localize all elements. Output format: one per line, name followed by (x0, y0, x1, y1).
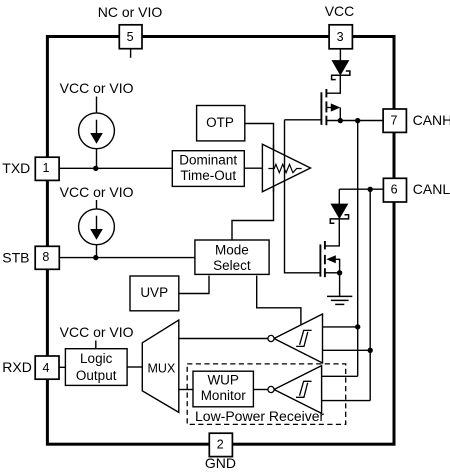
svg-text:RXD: RXD (2, 359, 32, 375)
wire gate bus (285, 120, 321, 273)
svg-text:6: 6 (391, 182, 398, 196)
pin 3 (329, 25, 352, 49)
wire TXD to Dominant Time-Out (59, 167, 172, 169)
wire MUX to upper receiver bubble (179, 338, 268, 340)
svg-text:CANL: CANL (413, 181, 450, 197)
node CANL bus junction (368, 187, 373, 192)
svg-text:MUX: MUX (148, 361, 176, 375)
wire diode D1 to Q1 drain (326, 75, 340, 93)
ground (327, 296, 352, 304)
svg-text:4: 4 (43, 361, 50, 375)
pin 6 (383, 178, 406, 202)
wire Q1 source to CANH pin (326, 120, 383, 122)
wire STB to Mode Select (59, 257, 195, 259)
svg-text:CANH: CANH (413, 112, 450, 128)
svg-text:Mode: Mode (215, 242, 249, 257)
pin 8 (35, 246, 59, 269)
transistor Q1 (high-side PMOS) (321, 89, 340, 125)
wire Mode Select to upper receiver enable (257, 276, 301, 326)
wire Mode Select to UVP (179, 276, 209, 294)
pin 4 (35, 356, 59, 379)
node junction upper receiver input 1 (355, 324, 360, 329)
wire CANL to diode D2 (338, 189, 340, 204)
svg-text:3: 3 (337, 30, 344, 44)
Low-Power Receiver dashed box (187, 364, 346, 425)
svg-text:Monitor: Monitor (201, 388, 247, 403)
svg-text:Dominant: Dominant (179, 152, 237, 167)
wire MUX to WUP Monitor (179, 389, 193, 391)
svg-text:8: 8 (42, 250, 49, 264)
node Q1 body junction (338, 118, 343, 123)
wire upper receiver input 2 (323, 349, 371, 351)
svg-text:UVP: UVP (140, 285, 168, 300)
wire CANL node to pin 6 (339, 188, 383, 190)
pin 1 (35, 157, 59, 180)
wire current source I2 to STB node (96, 245, 98, 258)
svg-text:7: 7 (391, 113, 398, 127)
wire current source I1 to TXD node (96, 149, 98, 169)
svg-text:Output: Output (76, 368, 117, 383)
svg-text:Time-Out: Time-Out (180, 168, 236, 183)
svg-text:5: 5 (127, 30, 134, 44)
svg-text:1: 1 (43, 161, 50, 175)
block Dominant Time-Out (172, 151, 244, 187)
wire lower receiver input 2 (322, 400, 371, 402)
label Low-Power Receiver (193, 411, 320, 423)
svg-text:Select: Select (213, 258, 251, 273)
svg-text:OTP: OTP (206, 115, 234, 130)
op-amp driver (262, 144, 310, 192)
wire VCC/VIO stub to current source I1 (96, 97, 98, 114)
svg-text:VCC or VIO: VCC or VIO (60, 184, 134, 200)
node Q2 source junction (337, 270, 342, 275)
MUX (142, 320, 179, 412)
block WUP Monitor (193, 371, 253, 407)
diode D1 (VCC schottky) (332, 61, 350, 80)
device outer border (47, 37, 394, 445)
wire pin3 to diode D1 (339, 49, 341, 61)
svg-text:GND: GND (205, 455, 236, 471)
current source I2 (79, 209, 115, 245)
node CANH bus junction (355, 118, 360, 123)
svg-text:TXD: TXD (2, 160, 30, 176)
svg-text:WUP: WUP (207, 373, 239, 388)
wire diode D2 to Q2 drain (325, 219, 339, 246)
wire CANL bus (369, 189, 371, 400)
op-amp lower receiver (WUP) (268, 366, 322, 414)
block UVP (130, 276, 179, 311)
svg-text:VCC: VCC (325, 3, 355, 19)
wire VCC/VIO stub to Logic Output (95, 341, 97, 349)
transistor Q2 (low-side NMOS) (320, 241, 339, 277)
block Mode Select (195, 240, 269, 274)
wire Logic Output to MUX (127, 366, 142, 368)
diode D2 (CANL schottky) (330, 204, 348, 223)
wire gate lead Q1 (285, 119, 322, 121)
pin 5 (119, 25, 142, 49)
svg-text:VCC or VIO: VCC or VIO (60, 80, 134, 96)
wire CANH bus (357, 121, 359, 377)
pin 7 (383, 109, 406, 132)
pin 2 (209, 433, 232, 456)
wire upper receiver input 1 (323, 326, 358, 328)
wire Q2 source to ground (339, 273, 341, 297)
node junction on STB wire (93, 255, 98, 260)
svg-text:NC or VIO: NC or VIO (98, 4, 163, 20)
op-amp upper receiver (268, 314, 323, 363)
wire RXD to Logic Output (59, 366, 65, 368)
node junction on TXD wire (93, 166, 98, 171)
svg-text:VCC or VIO: VCC or VIO (60, 324, 134, 340)
node junction upper receiver input 2 (368, 348, 373, 353)
wire lower receiver input 1 (322, 375, 358, 377)
wire OTP bus through driver (273, 144, 275, 192)
block OTP (197, 106, 245, 141)
wire WUP Monitor to lower receiver bubble (253, 389, 268, 391)
wire pin5 stub (130, 49, 132, 58)
wire Q2 source lead (325, 272, 340, 274)
wire Dominant Time-Out to driver (244, 167, 262, 169)
wire OTP output (232, 124, 274, 240)
svg-text:STB: STB (2, 250, 29, 266)
current source I1 (79, 113, 115, 149)
wire VCC/VIO stub to current source I2 (96, 200, 98, 209)
block Logic Output (65, 349, 127, 386)
svg-text:Low-Power Receiver: Low-Power Receiver (195, 408, 324, 424)
svg-text:Logic: Logic (80, 351, 113, 366)
svg-text:2: 2 (217, 438, 224, 452)
